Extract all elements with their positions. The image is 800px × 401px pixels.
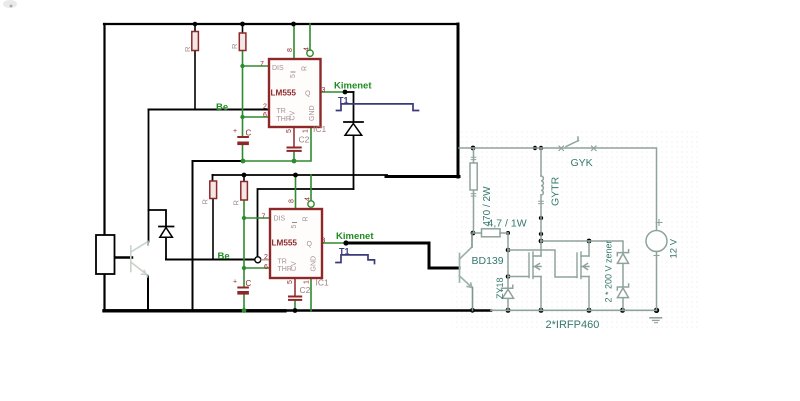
svg-text:Kimenet: Kimenet bbox=[336, 231, 374, 242]
svg-text:2: 2 bbox=[264, 254, 268, 261]
svg-text:R: R bbox=[302, 66, 309, 71]
svg-text:2: 2 bbox=[263, 104, 267, 111]
svg-text:BD139: BD139 bbox=[472, 255, 504, 267]
svg-text:Q: Q bbox=[307, 241, 313, 248]
svg-text:LM555: LM555 bbox=[271, 89, 297, 98]
svg-text:5: 5 bbox=[291, 225, 298, 229]
svg-text:3: 3 bbox=[322, 238, 326, 245]
svg-text:1: 1 bbox=[304, 280, 311, 284]
svg-text:C2: C2 bbox=[299, 135, 310, 145]
svg-text:R: R bbox=[232, 200, 241, 206]
svg-text:4: 4 bbox=[305, 197, 312, 201]
svg-text:IC1: IC1 bbox=[316, 278, 330, 288]
svg-text:6: 6 bbox=[263, 112, 267, 119]
svg-text:Kimenet: Kimenet bbox=[334, 81, 372, 92]
svg-text:DIS: DIS bbox=[272, 65, 284, 72]
svg-text:1: 1 bbox=[303, 129, 310, 133]
svg-text:Q: Q bbox=[305, 91, 311, 98]
svg-text:IC1: IC1 bbox=[313, 124, 327, 134]
svg-text:R: R bbox=[230, 43, 239, 49]
svg-text:CV: CV bbox=[290, 110, 297, 120]
svg-text:GND: GND bbox=[309, 105, 316, 121]
svg-text:GYK: GYK bbox=[571, 157, 593, 169]
svg-text:T1: T1 bbox=[338, 96, 349, 106]
svg-text:7: 7 bbox=[260, 61, 264, 68]
svg-text:C: C bbox=[246, 129, 252, 138]
svg-text:ZY18: ZY18 bbox=[495, 277, 505, 299]
svg-text:5: 5 bbox=[286, 129, 293, 133]
svg-text:GND: GND bbox=[311, 256, 318, 272]
svg-text:7: 7 bbox=[262, 214, 266, 221]
svg-text:C: C bbox=[246, 279, 252, 288]
svg-text:DIS: DIS bbox=[274, 216, 286, 223]
svg-text:4: 4 bbox=[304, 47, 311, 51]
svg-text:T1: T1 bbox=[339, 247, 350, 257]
svg-text:C2: C2 bbox=[300, 285, 311, 295]
svg-text:2*IRFP460: 2*IRFP460 bbox=[546, 319, 600, 331]
svg-text:12 V: 12 V bbox=[669, 238, 680, 258]
svg-text:LM555: LM555 bbox=[272, 239, 298, 248]
svg-text:8: 8 bbox=[289, 199, 296, 203]
svg-text:R: R bbox=[201, 199, 210, 205]
svg-text:R: R bbox=[183, 46, 192, 52]
svg-text:3: 3 bbox=[322, 87, 326, 94]
svg-text:GYTR: GYTR bbox=[550, 176, 562, 206]
svg-text:+: + bbox=[233, 279, 237, 286]
svg-text:CV: CV bbox=[291, 261, 298, 271]
svg-text:+: + bbox=[233, 128, 237, 135]
svg-text:TR: TR bbox=[278, 259, 287, 266]
svg-text:Be: Be bbox=[216, 102, 228, 113]
svg-text:TR: TR bbox=[277, 108, 286, 115]
svg-text:R: R bbox=[303, 216, 310, 221]
svg-text:470 / 2W: 470 / 2W bbox=[482, 186, 493, 227]
svg-text:2 * 200 V zener: 2 * 200 V zener bbox=[604, 240, 614, 302]
svg-text:5: 5 bbox=[287, 280, 294, 284]
svg-text:THR: THR bbox=[278, 266, 292, 273]
svg-text:6: 6 bbox=[264, 264, 268, 271]
svg-text:5: 5 bbox=[290, 74, 297, 78]
svg-text:4,7 / 1W: 4,7 / 1W bbox=[488, 218, 527, 230]
svg-text:8: 8 bbox=[287, 48, 294, 52]
svg-text:Be: Be bbox=[218, 251, 230, 262]
